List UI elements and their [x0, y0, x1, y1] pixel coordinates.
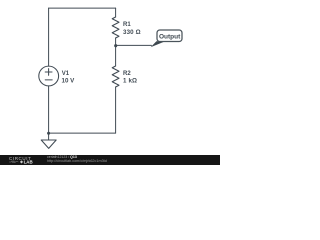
svg-text:10 V: 10 V: [62, 77, 76, 84]
wire node to output flag: [116, 44, 152, 46]
svg-text:R2: R2: [123, 71, 131, 77]
svg-text:R1: R1: [123, 22, 131, 28]
wire top horizontal: [49, 7, 116, 9]
svg-text:http://circuitlab.com/c/mjrk62: http://circuitlab.com/c/mjrk62c1m3td: [47, 159, 107, 163]
resistor R1: [112, 17, 119, 38]
voltage source V1 circle: [39, 66, 59, 86]
resistor R2: [112, 66, 119, 87]
V1 plus sign: [45, 71, 52, 73]
wire V1 bottom to corner: [48, 86, 50, 133]
circuitlab logo: diamond: [20, 160, 23, 163]
wire R1 top stub: [115, 8, 117, 17]
svg-text:330 Ω: 330 Ω: [123, 29, 141, 36]
output flag pointer: [151, 41, 166, 47]
output flag box: [157, 30, 182, 42]
wire node to R2 top: [115, 45, 117, 66]
wire R1 bottom to node: [115, 38, 117, 45]
V1 minus sign: [45, 79, 52, 81]
wire right vertical corner to R2 bottom: [115, 87, 117, 133]
wire left vertical to V1 top: [48, 8, 50, 66]
footer bar: [0, 155, 220, 165]
svg-text:LAB: LAB: [24, 159, 33, 164]
wire bottom horizontal: [49, 132, 116, 134]
circuitlab logo: waveform: [9, 161, 18, 163]
node junction at ground corner: [47, 132, 50, 135]
ground triangle: [41, 140, 56, 148]
node junction at output tap: [114, 44, 117, 47]
ground stub: [48, 133, 50, 140]
svg-text:Output: Output: [159, 33, 181, 40]
svg-text:V1: V1: [62, 71, 70, 77]
svg-text:1 kΩ: 1 kΩ: [123, 77, 137, 84]
